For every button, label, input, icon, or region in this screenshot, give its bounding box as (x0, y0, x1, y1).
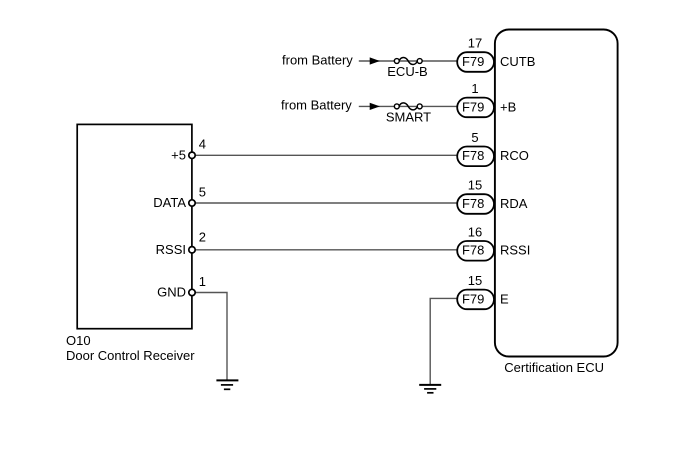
svg-text:RCO: RCO (500, 148, 529, 163)
svg-text:+5: +5 (171, 148, 186, 163)
svg-text:1: 1 (471, 81, 478, 96)
wire RCO/+5 (192, 154, 458, 156)
svg-text:from Battery: from Battery (281, 97, 352, 112)
svg-text:5: 5 (471, 130, 478, 145)
svg-text:F79: F79 (462, 291, 484, 306)
svg-text:Certification ECU: Certification ECU (504, 360, 604, 375)
pin number 1 (199, 274, 206, 289)
svg-text:Door Control Receiver: Door Control Receiver (66, 348, 195, 363)
svg-text:16: 16 (468, 224, 482, 239)
label DATA (153, 195, 186, 210)
label E (500, 291, 509, 306)
label RCO (500, 148, 529, 163)
fuse SMART (394, 103, 422, 110)
label +B (500, 99, 516, 114)
fuse label ECU-B (387, 64, 427, 79)
svg-text:CUTB: CUTB (500, 54, 535, 69)
label RSSI (ECU) (500, 243, 530, 258)
svg-text:2: 2 (199, 229, 206, 244)
svg-text:GND: GND (157, 285, 186, 300)
pin number 4 (199, 137, 206, 152)
svg-text:E: E (500, 291, 509, 306)
wire from Battery to CUTB (359, 60, 458, 62)
svg-text:DATA: DATA (153, 195, 186, 210)
svg-text:F78: F78 (462, 196, 484, 211)
label from Battery (top) (282, 52, 353, 67)
fuse label SMART (386, 109, 431, 124)
label O10 (66, 333, 91, 348)
pin number 5 (199, 184, 206, 199)
svg-text:O10: O10 (66, 333, 91, 348)
connector F79 pin 15 (E) (457, 290, 494, 310)
label RSSI (156, 242, 186, 257)
pin number 2 (199, 229, 206, 244)
ECU box Certification ECU (495, 30, 618, 357)
label Certification ECU (504, 360, 604, 375)
pin number 15 (E) (468, 273, 482, 288)
svg-text:F79: F79 (462, 54, 484, 69)
svg-text:15: 15 (468, 178, 482, 193)
svg-text:17: 17 (468, 36, 482, 51)
svg-text:F78: F78 (462, 148, 484, 163)
pin number 17 (468, 36, 482, 51)
connector F78 pin 16 (RSSI) (457, 241, 494, 261)
svg-text:RDA: RDA (500, 196, 528, 211)
svg-text:1: 1 (199, 274, 206, 289)
label +5 (171, 148, 186, 163)
svg-text:RSSI: RSSI (500, 243, 530, 258)
arrow on +B battery wire (370, 103, 379, 109)
pin 4 (+5) (189, 152, 195, 158)
svg-text:from Battery: from Battery (282, 52, 353, 67)
svg-text:F79: F79 (462, 99, 484, 114)
wire E to ground (430, 298, 457, 385)
ground (right, ECU E) (419, 385, 441, 393)
svg-text:4: 4 (199, 137, 206, 152)
wire GND to ground (192, 293, 227, 381)
pin number 15 (RDA) (468, 178, 482, 193)
connector F79 pin 1 (+B) (457, 98, 494, 118)
svg-text:F78: F78 (462, 243, 484, 258)
svg-text:+B: +B (500, 99, 516, 114)
wire from Battery to +B (359, 105, 458, 107)
label GND (157, 285, 186, 300)
wire RDA/DATA (192, 202, 458, 204)
connector F78 pin 5 (RCO) (457, 147, 494, 167)
wire RSSI (192, 249, 458, 251)
connector F79 pin 17 (CUTB) (457, 52, 494, 72)
pin 5 (DATA) (189, 200, 195, 206)
label CUTB (500, 54, 535, 69)
label RDA (500, 196, 528, 211)
pin 2 (RSSI) (189, 247, 195, 253)
pin 1 (GND) (189, 289, 195, 295)
pin number 5 (RCO) (471, 130, 478, 145)
pin number 1 (+B) (471, 81, 478, 96)
svg-text:15: 15 (468, 273, 482, 288)
arrow on CUTB battery wire (370, 58, 379, 64)
label from Battery (bottom) (281, 97, 352, 112)
ground (left, door control receiver) (216, 380, 238, 389)
box O10 Door Control Receiver (77, 124, 192, 328)
svg-text:SMART: SMART (386, 109, 431, 124)
svg-text:ECU-B: ECU-B (387, 64, 427, 79)
connector F78 pin 15 (RDA) (457, 194, 494, 214)
svg-text:5: 5 (199, 184, 206, 199)
label Door Control Receiver (66, 348, 195, 363)
svg-text:RSSI: RSSI (156, 242, 186, 257)
pin number 16 (RSSI) (468, 224, 482, 239)
fuse ECU-B (394, 58, 422, 65)
